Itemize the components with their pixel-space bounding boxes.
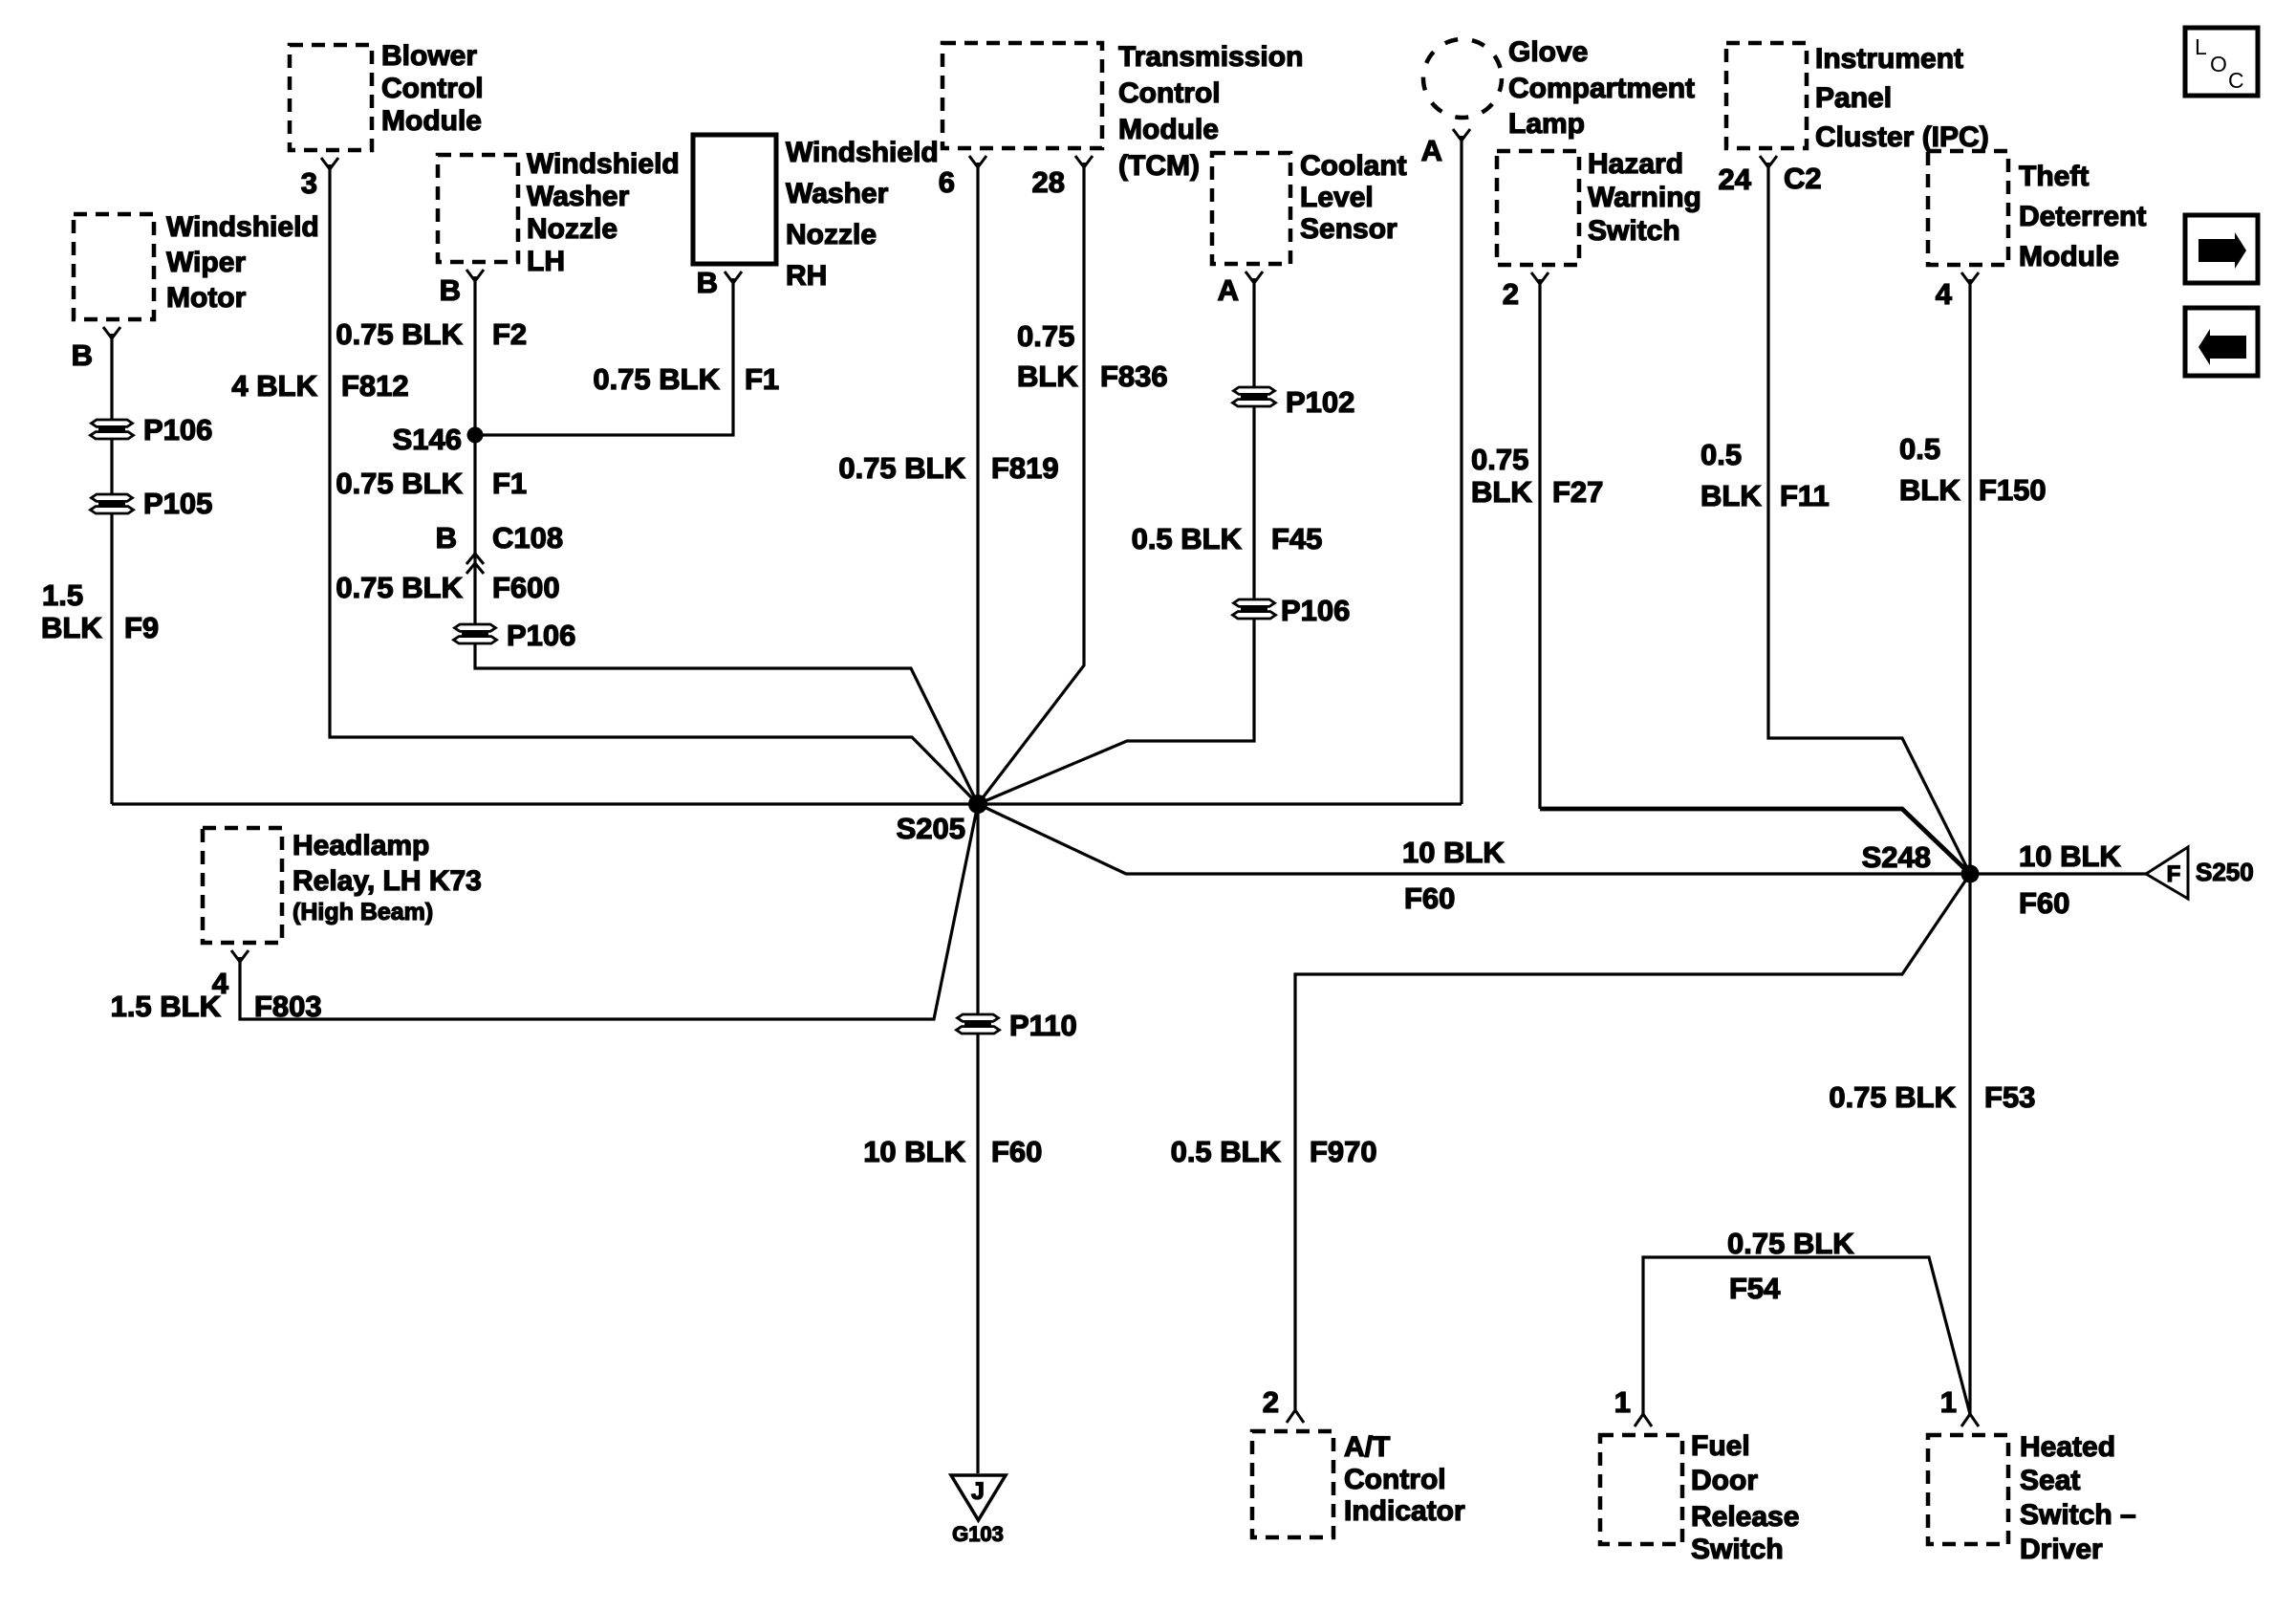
svg-text:F819: F819 xyxy=(991,451,1059,485)
svg-text:LH: LH xyxy=(527,246,565,277)
svg-text:Windshield: Windshield xyxy=(166,211,319,243)
svg-text:Driver: Driver xyxy=(2020,1534,2103,1565)
svg-text:O: O xyxy=(2210,52,2227,76)
svg-text:Motor: Motor xyxy=(166,282,247,314)
svg-text:0.5: 0.5 xyxy=(1700,438,1742,471)
svg-text:0.75 BLK: 0.75 BLK xyxy=(336,317,463,351)
svg-text:F2: F2 xyxy=(492,317,527,351)
svg-text:Switch –: Switch – xyxy=(2020,1499,2136,1531)
svg-text:0.75: 0.75 xyxy=(1017,319,1074,353)
svg-text:Washer: Washer xyxy=(527,181,630,212)
svg-text:Windshield: Windshield xyxy=(786,137,939,168)
svg-text:Cluster (IPC): Cluster (IPC) xyxy=(1815,121,1989,153)
svg-text:BLK: BLK xyxy=(1017,359,1078,393)
svg-text:Blower: Blower xyxy=(381,40,477,72)
svg-text:Panel: Panel xyxy=(1815,82,1892,114)
svg-text:F1: F1 xyxy=(745,362,779,396)
svg-text:Headlamp: Headlamp xyxy=(292,830,429,861)
svg-text:0.5 BLK: 0.5 BLK xyxy=(1171,1135,1282,1168)
svg-text:C2: C2 xyxy=(1784,162,1822,195)
svg-text:P106: P106 xyxy=(1281,594,1350,627)
svg-text:S205: S205 xyxy=(897,812,965,845)
svg-text:0.5 BLK: 0.5 BLK xyxy=(1132,522,1243,555)
svg-text:S250: S250 xyxy=(2196,858,2254,886)
svg-text:F60: F60 xyxy=(1404,882,1455,915)
svg-text:Control: Control xyxy=(381,73,484,104)
svg-text:A/T: A/T xyxy=(1344,1431,1390,1463)
svg-text:F150: F150 xyxy=(1979,473,2047,507)
svg-text:0.75: 0.75 xyxy=(1471,443,1528,476)
svg-text:4: 4 xyxy=(212,967,229,1000)
svg-text:0.75 BLK: 0.75 BLK xyxy=(1727,1227,1854,1260)
svg-text:Nozzle: Nozzle xyxy=(527,213,617,245)
svg-text:Module: Module xyxy=(381,105,482,137)
svg-text:Deterrent: Deterrent xyxy=(2019,201,2146,232)
svg-text:0.75 BLK: 0.75 BLK xyxy=(838,451,965,485)
svg-text:Theft: Theft xyxy=(2019,161,2089,192)
svg-text:4: 4 xyxy=(1936,277,1953,311)
svg-text:0.75 BLK: 0.75 BLK xyxy=(1829,1080,1956,1114)
svg-text:4 BLK: 4 BLK xyxy=(231,369,317,403)
svg-text:Release: Release xyxy=(1691,1501,1799,1533)
svg-text:24: 24 xyxy=(1719,163,1752,196)
svg-text:2: 2 xyxy=(1503,277,1519,311)
svg-text:P106: P106 xyxy=(507,619,575,652)
svg-text:F9: F9 xyxy=(124,611,159,644)
svg-text:Lamp: Lamp xyxy=(1508,108,1585,140)
svg-text:F: F xyxy=(2167,861,2181,887)
svg-text:P105: P105 xyxy=(143,487,212,520)
svg-text:Relay, LH K73: Relay, LH K73 xyxy=(292,865,482,897)
svg-text:Switch: Switch xyxy=(1588,215,1680,247)
svg-text:28: 28 xyxy=(1032,165,1065,199)
svg-text:F60: F60 xyxy=(991,1135,1042,1168)
svg-text:Compartment: Compartment xyxy=(1508,73,1695,104)
svg-text:F60: F60 xyxy=(2019,886,2069,920)
svg-text:0.5: 0.5 xyxy=(1899,432,1940,466)
svg-text:J: J xyxy=(971,1478,985,1505)
svg-text:A: A xyxy=(1421,134,1442,167)
svg-text:P106: P106 xyxy=(143,413,212,446)
svg-text:(High Beam): (High Beam) xyxy=(292,899,433,925)
svg-text:F970: F970 xyxy=(1310,1135,1377,1168)
svg-text:P110: P110 xyxy=(1009,1009,1077,1042)
svg-text:B: B xyxy=(697,266,718,299)
svg-text:Control: Control xyxy=(1118,77,1221,109)
svg-text:Module: Module xyxy=(2019,241,2119,272)
svg-text:3: 3 xyxy=(301,166,317,200)
svg-text:BLK: BLK xyxy=(41,611,102,644)
svg-text:BLK: BLK xyxy=(1471,475,1532,509)
svg-text:Module: Module xyxy=(1118,114,1219,145)
svg-text:Instrument: Instrument xyxy=(1815,43,1963,75)
svg-text:10 BLK: 10 BLK xyxy=(863,1135,965,1168)
svg-text:P102: P102 xyxy=(1286,385,1354,419)
svg-text:Seat: Seat xyxy=(2020,1465,2080,1496)
svg-text:0.75 BLK: 0.75 BLK xyxy=(336,467,463,500)
svg-text:C108: C108 xyxy=(492,521,563,555)
svg-text:S248: S248 xyxy=(1862,840,1931,874)
svg-text:1.5: 1.5 xyxy=(42,578,83,612)
svg-text:10 BLK: 10 BLK xyxy=(1402,836,1505,869)
svg-text:B: B xyxy=(440,273,461,307)
svg-text:BLK: BLK xyxy=(1899,473,1960,507)
svg-text:Control: Control xyxy=(1344,1464,1446,1495)
svg-text:C: C xyxy=(2228,68,2244,93)
svg-text:F600: F600 xyxy=(492,571,560,604)
svg-text:Fuel: Fuel xyxy=(1691,1430,1750,1462)
svg-text:F54: F54 xyxy=(1729,1272,1781,1305)
svg-text:Sensor: Sensor xyxy=(1300,213,1397,245)
svg-text:BLK: BLK xyxy=(1700,479,1762,512)
svg-text:Nozzle: Nozzle xyxy=(786,219,877,250)
svg-text:Door: Door xyxy=(1691,1465,1758,1496)
svg-text:Level: Level xyxy=(1300,182,1374,213)
svg-text:Washer: Washer xyxy=(786,178,889,209)
svg-text:S146: S146 xyxy=(393,423,462,456)
svg-text:1: 1 xyxy=(1614,1385,1631,1419)
svg-text:Warning: Warning xyxy=(1588,182,1701,213)
svg-text:2: 2 xyxy=(1263,1385,1279,1419)
svg-text:Switch: Switch xyxy=(1691,1534,1784,1565)
svg-text:F812: F812 xyxy=(341,369,409,403)
svg-text:F836: F836 xyxy=(1100,359,1168,393)
svg-text:B: B xyxy=(72,338,93,372)
svg-text:F1: F1 xyxy=(492,467,527,500)
svg-text:G103: G103 xyxy=(952,1522,1004,1546)
svg-text:Coolant: Coolant xyxy=(1300,150,1407,182)
svg-text:RH: RH xyxy=(786,260,827,292)
svg-text:A: A xyxy=(1218,273,1239,307)
svg-text:Heated: Heated xyxy=(2020,1431,2115,1463)
svg-text:Hazard: Hazard xyxy=(1588,148,1683,180)
svg-text:Windshield: Windshield xyxy=(527,148,680,180)
svg-text:Glove: Glove xyxy=(1508,36,1588,68)
svg-text:Wiper: Wiper xyxy=(166,247,246,278)
svg-text:B: B xyxy=(436,521,457,555)
svg-text:F803: F803 xyxy=(254,990,322,1023)
svg-text:0.75 BLK: 0.75 BLK xyxy=(593,362,720,396)
svg-text:Transmission: Transmission xyxy=(1118,41,1303,73)
svg-text:10 BLK: 10 BLK xyxy=(2019,839,2121,873)
svg-text:Indicator: Indicator xyxy=(1344,1495,1465,1527)
svg-text:6: 6 xyxy=(939,165,955,199)
svg-text:F53: F53 xyxy=(1984,1080,2035,1114)
svg-text:0.75 BLK: 0.75 BLK xyxy=(336,571,463,604)
svg-text:F45: F45 xyxy=(1271,522,1322,555)
svg-text:1.5 BLK: 1.5 BLK xyxy=(111,990,222,1023)
svg-text:(TCM): (TCM) xyxy=(1118,150,1200,182)
svg-text:F27: F27 xyxy=(1552,475,1603,509)
svg-text:1: 1 xyxy=(1940,1385,1957,1419)
svg-text:F11: F11 xyxy=(1780,479,1830,512)
svg-text:L: L xyxy=(2195,34,2207,59)
